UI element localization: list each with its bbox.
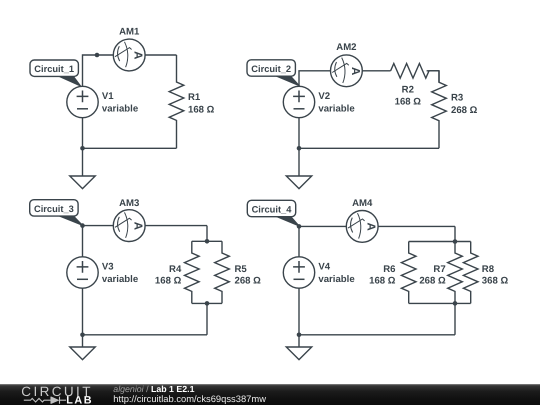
svg-text:R8: R8 [482,264,495,275]
wire: V2 top to AM2 to R2 (node A2) [299,71,391,87]
svg-text:V2: V2 [318,91,330,102]
ground GND4 [286,347,311,360]
node label Circuit_2 [247,60,300,86]
resistor R3 [432,71,447,149]
R8 labels [482,264,509,287]
junction node A4 [297,224,302,229]
junction bottom rail [205,301,210,306]
wire: ground stem [298,335,300,347]
V2 designator and value labels [318,91,354,114]
resistor R5 [215,241,230,303]
R3 labels [451,93,478,116]
svg-text:variable: variable [102,104,138,115]
junction node B4 at ground tap [297,333,302,338]
voltage source V3 [67,257,98,288]
svg-text:R6: R6 [383,264,395,275]
svg-text:168 Ω: 168 Ω [155,275,182,286]
svg-text:AM4: AM4 [352,198,373,209]
svg-text:A: A [132,51,144,59]
svg-text:268 Ω: 268 Ω [451,105,478,116]
svg-text:AM2: AM2 [336,42,356,53]
svg-text:168 Ω: 168 Ω [395,97,422,108]
wire: ground stem [82,335,84,347]
svg-text:AM3: AM3 [119,198,139,209]
svg-text:http://circuitlab.com/cks69qss: http://circuitlab.com/cks69qss387mw [113,393,266,404]
svg-text:A: A [349,67,361,75]
resistor R8 [463,242,478,304]
svg-text:168 Ω: 168 Ω [369,275,396,286]
R2 labels [395,84,422,107]
junction node B2 at ground tap [297,146,302,151]
ammeter AM4 [346,211,378,243]
voltage source V1 [67,86,98,117]
svg-text:R3: R3 [451,93,463,104]
ammeter AM2 [331,55,363,87]
wire: bottom return V1 to R1 (node B1) [83,118,177,149]
footer bar [0,384,540,405]
V4 designator and value labels [318,262,354,285]
ground GND2 [286,176,311,189]
ground GND3 [70,347,95,360]
wire: V4 top to AM4 (node A4) [299,226,455,256]
ammeter AM3 [113,210,145,242]
wire: bottom return V2 to R3 (node B2) [299,118,439,149]
wire: parallel bottom to return [206,303,208,334]
svg-text:LAB: LAB [66,394,93,405]
R5 labels [235,264,262,287]
resistor R4 [185,241,200,303]
svg-text:variable: variable [318,274,354,285]
V1 designator and value labels [102,91,138,114]
wire: bottom return (node B3) [83,288,208,335]
R7 labels [419,264,446,287]
resistor R6 [401,242,416,304]
svg-text:R1: R1 [188,92,201,103]
svg-text:A: A [365,223,377,231]
svg-text:R2: R2 [402,84,414,95]
wire: V1 top to AM1 to R1 top (node A1) [83,55,177,86]
R4 labels [155,264,182,287]
resistor R1 [169,55,184,148]
wire: down to parallel top rail [206,226,208,242]
junction top rail [205,239,210,244]
node label Circuit_1 [30,60,81,86]
CircuitLab logo schematic squiggle with diode [24,397,66,404]
R1 labels [188,92,215,115]
R6 labels [369,264,396,287]
svg-text:V1: V1 [102,91,114,102]
svg-text:Circuit_2: Circuit_2 [251,64,291,74]
wire: R2 to R3 corner [427,71,439,83]
svg-text:168 Ω: 168 Ω [188,104,215,115]
ground GND1 [70,176,95,189]
svg-text:variable: variable [102,274,138,285]
wire: ground stem [82,148,84,176]
svg-text:R7: R7 [433,264,445,275]
node label Circuit_3 [30,200,83,226]
svg-text:V3: V3 [102,262,114,273]
wire: parallel top rail [409,241,471,243]
wire: parallel bottom rail [409,302,471,304]
svg-text:variable: variable [318,104,354,115]
svg-text:R5: R5 [235,264,248,275]
resistor R2 [391,64,439,79]
wire: ground stem [298,148,300,176]
junction node A1 [95,53,100,58]
svg-text:V4: V4 [318,262,330,273]
resistor R7 [448,242,463,304]
node label Circuit_4 [247,200,299,226]
junction bottom rail [453,301,458,306]
wire: parallel top rail [192,240,222,242]
voltage source V2 [283,86,314,117]
svg-text:268 Ω: 268 Ω [419,275,446,286]
svg-text:Circuit_1: Circuit_1 [34,64,74,74]
svg-text:268 Ω: 268 Ω [235,275,262,286]
svg-text:R4: R4 [169,264,182,275]
svg-text:A: A [132,222,144,230]
junction node A3 [80,223,85,228]
svg-text:368 Ω: 368 Ω [482,275,509,286]
wire: parallel bottom rail [192,302,222,304]
ammeter AM1 [113,39,145,71]
junction node B1 at ground tap [80,146,85,151]
wire: bottom return (node B4) [299,288,455,335]
junction top rail [453,239,458,244]
svg-text:Circuit_4: Circuit_4 [252,205,293,215]
V3 designator and value labels [102,262,138,285]
svg-text:Circuit_3: Circuit_3 [34,204,74,214]
wire: down to parallel top rail [454,226,456,241]
wire: V3 top to AM3 (node A3) [83,226,208,257]
junction node B3 at ground tap [80,333,85,338]
voltage source V4 [283,257,314,288]
wire: parallel bottom to return [454,303,456,334]
svg-text:AM1: AM1 [119,26,140,37]
